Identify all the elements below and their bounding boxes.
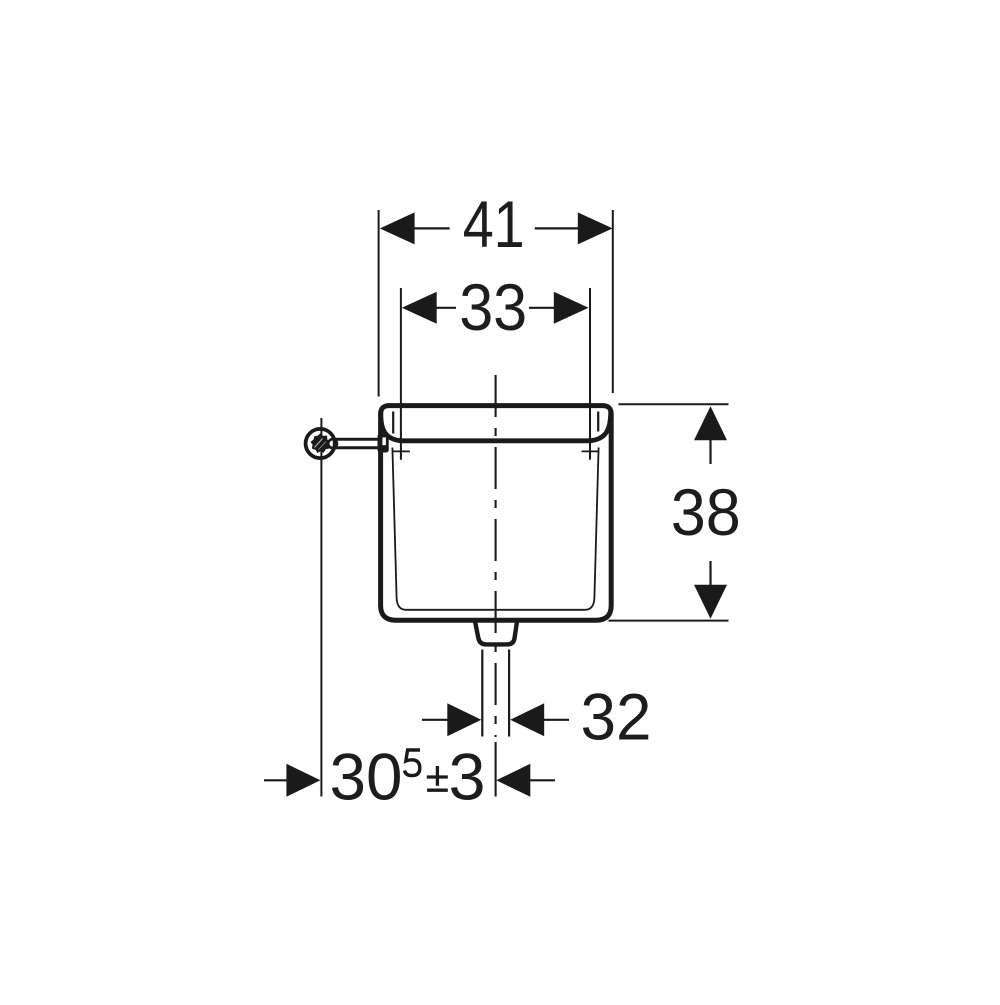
tank inner wall	[392, 448, 598, 610]
dimension 38 upper tail	[709, 439, 711, 465]
dimension 30 right arrow	[496, 764, 530, 797]
dimension 38 bottom extension line	[609, 620, 729, 622]
dimension 41 line right segment	[535, 227, 580, 229]
valve knob blob	[311, 434, 330, 452]
supply rod wall nut	[378, 434, 389, 453]
dimension 41 line left segment	[413, 227, 450, 229]
dimension 33 left arrow	[402, 292, 437, 324]
svg-text:33: 33	[459, 270, 527, 344]
dimension 41 left arrow	[380, 212, 415, 244]
svg-text:3: 3	[449, 739, 486, 813]
dimension text plus-minus 3	[427, 766, 448, 790]
svg-text:30: 30	[330, 739, 403, 813]
svg-text:41: 41	[463, 187, 525, 261]
dimension 38 down arrow	[694, 585, 727, 619]
supply axis extension line	[320, 418, 322, 797]
supply rod bottom line	[334, 446, 379, 449]
cistern outer outline	[381, 406, 612, 621]
dimension 38 up arrow	[694, 406, 727, 440]
dimension 38 top extension line	[619, 403, 729, 405]
dimension 33 right arrow	[554, 292, 589, 324]
svg-text:32: 32	[581, 680, 652, 754]
dimension 33 line right segment	[529, 307, 555, 309]
lid inner edge left	[392, 412, 394, 434]
water supply valve circle	[306, 429, 335, 458]
dimension 33 left extension line	[400, 288, 402, 460]
dimension 33 right extension line	[589, 288, 591, 460]
lid inner edge right	[597, 412, 599, 432]
dimension 32 right leader	[542, 719, 569, 721]
dimension 30 left leader	[264, 779, 288, 781]
centerline lower solid segment	[495, 742, 497, 797]
dimension 33 inner width tick left	[393, 450, 410, 452]
dimension 41 right extension line	[612, 210, 614, 393]
dimension 38 lower tail	[709, 561, 711, 587]
flush pipe right edge	[508, 650, 510, 737]
dimension 30 right leader	[529, 779, 556, 781]
dimension 33 inner width tick right	[582, 450, 599, 452]
dimension 41 right arrow	[578, 212, 613, 244]
flush pipe left edge	[481, 650, 483, 737]
supply rod top line	[334, 438, 379, 441]
dimension text 30 superscript 5	[404, 750, 420, 776]
cistern lid bottom edge	[381, 411, 611, 441]
flush valve outlet trapezoid	[475, 621, 517, 645]
dimension 33 line left segment	[435, 307, 456, 309]
dimension 32 left arrow	[447, 703, 481, 736]
dimension 32 right arrow	[510, 703, 544, 736]
dimension 32 left leader	[422, 719, 450, 721]
dimension 41 left extension line	[378, 210, 380, 397]
centerline (vertical dash-dot axis)	[495, 375, 497, 737]
supply rod end ring	[328, 439, 337, 448]
svg-text:38: 38	[671, 475, 741, 549]
dimension 30 left arrow	[286, 764, 320, 797]
